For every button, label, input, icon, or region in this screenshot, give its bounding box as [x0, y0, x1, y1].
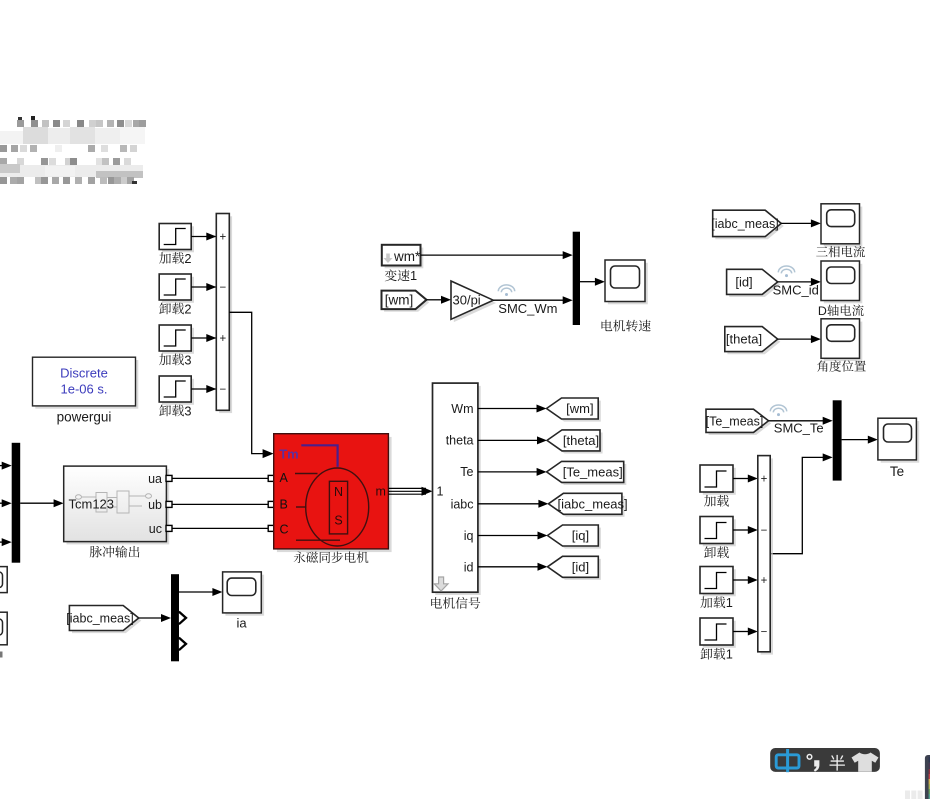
wire sum to mux — [770, 453, 833, 553]
from tag [iabc_meas] (bottom) — [66, 606, 141, 634]
wire — [421, 251, 573, 259]
goto tag [iabc_meas] — [548, 493, 627, 517]
subsystem 电机信号 — [431, 383, 480, 609]
svg-text:C: C — [280, 523, 289, 537]
svg-text:[Te_meas]: [Te_meas] — [706, 414, 764, 428]
goto tag [id] — [548, 556, 601, 580]
svg-text:m: m — [376, 485, 386, 499]
svg-text:SMC_id: SMC_id — [773, 282, 819, 297]
subsystem 脉冲输出 (Tcm123) — [64, 466, 170, 557]
step block 加载3 — [159, 325, 194, 367]
svg-text:id: id — [464, 561, 474, 575]
svg-text:2: 2 — [184, 251, 191, 266]
svg-text:−: − — [219, 282, 226, 294]
svg-text:D: D — [818, 304, 827, 318]
from tag [wm] — [382, 291, 430, 312]
step block 加载1 — [700, 567, 736, 611]
step block 卸载 — [700, 517, 736, 559]
svg-text:ub: ub — [148, 498, 162, 512]
svg-text:3: 3 — [184, 403, 191, 418]
wire — [191, 385, 216, 393]
svg-text:Te: Te — [460, 465, 473, 479]
svg-text:[Te_meas]: [Te_meas] — [563, 465, 623, 480]
svg-text:[wm]: [wm] — [385, 293, 414, 308]
svg-text:2: 2 — [184, 301, 191, 316]
svg-text:−: − — [761, 626, 768, 638]
powergui block — [33, 357, 139, 424]
wire — [478, 563, 548, 571]
svg-text:[id]: [id] — [572, 559, 589, 574]
svg-text:1e-06 s.: 1e-06 s. — [61, 382, 108, 397]
scope 角度位置 — [817, 319, 866, 372]
svg-text:S: S — [334, 513, 342, 527]
svg-text:wm*: wm* — [393, 249, 421, 264]
svg-text:ua: ua — [148, 472, 162, 486]
partial label — [0, 652, 3, 658]
wire — [478, 468, 547, 476]
goto tag [wm] — [547, 398, 601, 422]
wire — [191, 283, 216, 291]
bus wire m to 电机信号 — [388, 487, 432, 496]
scope 电机转速 — [602, 260, 651, 332]
svg-text:Tcm123: Tcm123 — [69, 497, 115, 512]
svg-text:Te: Te — [890, 464, 904, 479]
svg-text:[theta]: [theta] — [563, 433, 599, 448]
svg-text:iabc: iabc — [451, 497, 474, 511]
svg-text:[id]: [id] — [735, 274, 752, 289]
label SMC_Te — [774, 420, 824, 435]
svg-text:Tm: Tm — [279, 446, 299, 461]
svg-text:theta: theta — [446, 434, 474, 448]
step block 加载 — [700, 465, 736, 507]
svg-text:powergui: powergui — [57, 410, 112, 425]
goto tag [iq] — [548, 525, 601, 549]
svg-text:[iq]: [iq] — [572, 528, 589, 543]
svg-text:N: N — [334, 485, 343, 499]
svg-text:Discrete: Discrete — [60, 366, 108, 381]
wire — [478, 405, 547, 413]
wire — [733, 628, 758, 636]
wire — [139, 614, 171, 622]
label SMC_Wm — [498, 301, 557, 316]
svg-text:[iabc_meas]: [iabc_meas] — [711, 217, 778, 231]
wire mux to subsystem — [20, 499, 63, 507]
wire — [733, 475, 758, 483]
svg-text:Wm: Wm — [451, 402, 473, 416]
svg-text:SMC_Te: SMC_Te — [774, 420, 824, 435]
wireless icon SMC_Te — [770, 405, 786, 416]
wire — [0, 499, 12, 507]
sum block Add1 — [758, 456, 773, 655]
scope D轴电流 — [818, 261, 864, 318]
wire — [842, 436, 878, 444]
svg-text:+: + — [219, 231, 226, 243]
svg-text:ia: ia — [236, 615, 247, 630]
svg-text:SMC_Wm: SMC_Wm — [498, 301, 557, 316]
wireless icon SMC_id — [778, 266, 794, 277]
label SMC_id — [773, 282, 819, 297]
from tag [id] — [727, 269, 781, 297]
svg-text:A: A — [280, 471, 289, 485]
wire — [778, 278, 821, 286]
svg-text:[iabc_meas]: [iabc_meas] — [66, 612, 133, 626]
from tag [theta] — [725, 327, 781, 355]
wire — [427, 296, 452, 304]
svg-text:1: 1 — [437, 485, 444, 499]
mux (top) — [573, 232, 580, 325]
wire — [733, 576, 758, 584]
scope Te — [878, 418, 919, 479]
wire — [166, 475, 274, 481]
window fragment (corner) — [905, 755, 930, 799]
svg-text:B: B — [280, 497, 288, 511]
gain block 30/pi — [451, 281, 496, 322]
wire — [733, 526, 758, 534]
svg-text:1: 1 — [726, 647, 733, 662]
svg-text:+: + — [219, 333, 226, 345]
svg-text:−: − — [219, 384, 226, 396]
wire — [478, 532, 548, 540]
wire — [166, 501, 274, 507]
scope ia — [223, 572, 265, 630]
svg-text:uc: uc — [149, 522, 162, 536]
wire — [0, 462, 12, 470]
watermark mosaic — [0, 116, 146, 184]
svg-text:1: 1 — [410, 268, 417, 283]
IME status bar — [770, 748, 880, 772]
wire — [179, 588, 222, 596]
step block 卸载2 — [159, 274, 194, 316]
unconnected port — [179, 638, 186, 651]
wire — [191, 233, 216, 241]
svg-text:[iabc_meas]: [iabc_meas] — [558, 496, 628, 511]
svg-text:1: 1 — [726, 595, 733, 610]
svg-text:3: 3 — [184, 352, 191, 367]
wire — [493, 296, 572, 304]
svg-text:−: − — [761, 525, 768, 537]
svg-text:iq: iq — [464, 529, 474, 543]
wire — [478, 500, 549, 508]
wire — [580, 278, 605, 286]
demux (ia) — [171, 574, 179, 661]
wire — [166, 525, 274, 531]
scope 三相电流 — [816, 204, 865, 258]
wire — [478, 436, 547, 444]
svg-text:30/pi: 30/pi — [453, 293, 481, 308]
PMSM block 永磁同步电机 — [274, 434, 392, 563]
wire — [769, 417, 833, 425]
partial block (left edge) — [0, 567, 7, 593]
wire — [0, 538, 12, 546]
goto tag [theta] — [547, 430, 603, 454]
partial block (left edge) — [0, 612, 7, 645]
step block 卸载1 — [700, 618, 736, 662]
sum block Add2 — [216, 214, 232, 414]
from tag [iabc_meas] — [711, 210, 784, 239]
wireless icon SMC_Wm — [498, 285, 514, 296]
svg-text:+: + — [761, 473, 768, 485]
wire sum to Tm — [229, 312, 273, 458]
goto tag [Te_meas] — [547, 461, 627, 485]
step block 加载2 — [159, 224, 194, 266]
svg-text:[wm]: [wm] — [566, 401, 593, 416]
mux (Te) — [833, 400, 842, 480]
mux (left, 3 inputs) — [12, 443, 21, 563]
unconnected port — [179, 612, 186, 625]
svg-text:+: + — [761, 575, 768, 587]
source block wm* (变速1) — [382, 245, 424, 283]
from tag [Te_meas] — [706, 409, 771, 435]
svg-text:[theta]: [theta] — [726, 332, 762, 347]
wire — [781, 219, 821, 227]
wire — [191, 334, 216, 342]
wire — [778, 335, 821, 343]
step block 卸载3 — [159, 376, 194, 418]
